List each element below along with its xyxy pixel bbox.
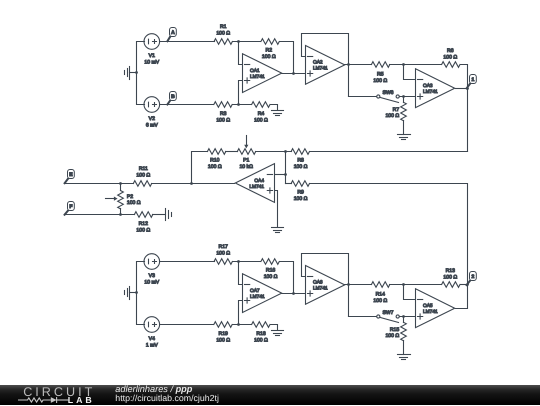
resistor R14 100 Ω	[371, 282, 389, 304]
wire OA4 non-inverting to ground	[275, 191, 278, 228]
resistor R17 100 Ω	[214, 244, 232, 264]
wire P1 to R8	[256, 151, 292, 153]
svg-text:V3: V3	[149, 273, 155, 279]
svg-text:LM741: LM741	[313, 66, 328, 72]
svg-text:R17: R17	[219, 244, 229, 250]
ground at R7	[398, 135, 411, 140]
voltage source V4 (1 mV)	[144, 317, 160, 349]
wire R14 to R13	[390, 284, 442, 286]
svg-text:100 Ω: 100 Ω	[373, 298, 387, 304]
svg-text:OA3: OA3	[423, 83, 433, 89]
resistor R7 100 Ω	[385, 97, 406, 135]
svg-text:A: A	[171, 30, 175, 36]
svg-text:1 mV: 1 mV	[146, 343, 158, 349]
svg-text:R14: R14	[376, 292, 386, 298]
wire F to R12	[66, 214, 135, 216]
resistor R13 100 Ω	[442, 268, 460, 287]
svg-text:V2: V2	[149, 116, 155, 122]
junction OA7 output / R16	[292, 292, 295, 295]
svg-text:100 Ω: 100 Ω	[216, 337, 230, 343]
svg-text:100 Ω: 100 Ω	[254, 117, 268, 123]
svg-text:100 Ω: 100 Ω	[216, 250, 230, 256]
ground near V1/V2	[125, 67, 137, 80]
svg-text:100 Ω: 100 Ω	[443, 54, 457, 60]
junction OA1 output / R2	[292, 72, 295, 75]
ground at R15	[398, 355, 411, 360]
op-amp OA4 LM741	[235, 164, 274, 203]
resistor R4 100 Ω	[252, 102, 270, 124]
svg-text:R6: R6	[447, 48, 454, 54]
ground at R12	[166, 209, 172, 221]
op-amp OA5 LM741	[416, 289, 455, 328]
node 2 flag	[467, 272, 477, 286]
wire R10 to P1	[226, 151, 238, 153]
ground at OA4	[272, 228, 284, 233]
junction R14/R13/OA5- node	[402, 283, 405, 286]
svg-text:100 Ω: 100 Ω	[216, 30, 230, 36]
wire R16 to OA7 output	[280, 262, 294, 294]
svg-text:P1: P1	[243, 158, 249, 164]
junction R19/R18/OA7+ node	[237, 323, 240, 326]
svg-text:OA6: OA6	[313, 280, 323, 286]
wire R1-R2 node	[233, 41, 261, 43]
ground at R18	[272, 331, 284, 336]
op-amp OA1 LM741	[243, 54, 282, 93]
svg-text:R13: R13	[446, 268, 456, 274]
junction V1-V2 ground tap	[135, 71, 138, 74]
wire R17 to R16	[233, 261, 261, 263]
voltage source V1 (10 mV)	[144, 34, 160, 66]
svg-text:100 Ω: 100 Ω	[262, 54, 276, 60]
svg-text:OA7: OA7	[250, 288, 260, 294]
wire R19 to R18	[233, 324, 252, 326]
wire OA2 feedback loop	[302, 34, 349, 97]
potentiometer P1 10 kΩ	[237, 136, 255, 171]
wire OA1 output to OA2+	[282, 73, 306, 75]
junction SW7/R15/OA5+ node	[402, 315, 405, 318]
svg-text:R18: R18	[256, 331, 266, 337]
wire to OA7 non-inverting input	[239, 301, 243, 325]
svg-text:100 Ω: 100 Ω	[208, 164, 222, 170]
wire R11 to OA4 output	[152, 183, 235, 185]
wire V1-V2 left common	[137, 42, 145, 105]
wire V3-V4 left common	[137, 262, 145, 325]
wire to OA3 inverting input	[404, 65, 416, 80]
junction OA4- node	[284, 173, 287, 176]
wire OA5 output	[456, 285, 468, 309]
svg-text:100 Ω: 100 Ω	[294, 164, 308, 170]
wire SW7 to OA5 non-inverting input	[400, 316, 416, 318]
wire R2 to OA1 output	[280, 42, 294, 74]
junction R17/R16/OA7- node	[237, 260, 240, 263]
junction R1/R2/OA1- node	[237, 40, 240, 43]
CircuitLab logo	[18, 384, 95, 404]
junction OA6 output	[347, 283, 350, 286]
node E flag	[65, 170, 75, 184]
wire R6 to OA3 output and down to R8 row	[461, 65, 468, 152]
svg-text:100 Ω: 100 Ω	[136, 172, 150, 178]
svg-text:V4: V4	[149, 336, 155, 342]
wire to OA5 inverting input	[404, 285, 416, 300]
svg-text:B: B	[171, 94, 175, 100]
svg-text:F: F	[69, 204, 72, 210]
svg-text:P2: P2	[127, 194, 133, 200]
svg-text:1: 1	[472, 77, 475, 83]
svg-text:100 Ω: 100 Ω	[294, 196, 308, 202]
wire R8 to node 1 riser	[310, 151, 468, 153]
svg-text:2: 2	[472, 274, 475, 280]
svg-text:100 Ω: 100 Ω	[216, 117, 230, 123]
svg-text:LM741: LM741	[423, 309, 438, 315]
wire riser P1/R8 to R9	[285, 152, 287, 184]
svg-text:SW7: SW7	[382, 310, 393, 316]
voltage source V3 (10 mV)	[144, 254, 160, 286]
wire R5 to R6	[390, 64, 442, 66]
svg-text:LM741: LM741	[423, 89, 438, 95]
svg-text:R4: R4	[258, 111, 265, 117]
wire V4 to R19	[160, 324, 214, 326]
wire R13 to node 2	[461, 284, 468, 286]
wire V2 to R3	[160, 104, 214, 106]
junction OA3 output node 1	[466, 87, 469, 90]
junction R11/feedback/OA4 output	[190, 182, 193, 185]
node B flag	[167, 92, 176, 105]
wire OA2 output to R5	[345, 64, 372, 66]
wire to OA1 non-inverting input	[239, 81, 243, 105]
junction F/P2/R12	[119, 213, 122, 216]
wire SW6 to OA3 non-inverting input	[400, 96, 416, 98]
wire V3 to R17	[160, 261, 215, 263]
switch SW6	[377, 90, 400, 103]
junction SW6/R7/OA3+ node	[402, 95, 405, 98]
svg-text:100 Ω: 100 Ω	[373, 78, 387, 84]
op-amp OA2 LM741	[306, 46, 345, 85]
wire R9 to node 2 drop	[310, 184, 468, 285]
svg-text:LAB: LAB	[68, 395, 95, 405]
svg-text:R5: R5	[377, 72, 384, 78]
svg-text:100 Ω: 100 Ω	[127, 200, 141, 206]
resistor R5 100 Ω	[371, 62, 389, 84]
wire OA2 output down to SW6	[349, 96, 377, 98]
svg-text:10 kΩ: 10 kΩ	[239, 164, 253, 170]
svg-text:10 mV: 10 mV	[144, 280, 159, 286]
svg-text:100 Ω: 100 Ω	[443, 274, 457, 280]
wire E to R11	[66, 183, 134, 185]
wire OA6 output down to SW7	[349, 316, 377, 318]
svg-text:100 Ω: 100 Ω	[385, 113, 399, 119]
wire OA6 output to R14	[345, 284, 372, 286]
resistor R19 100 Ω	[214, 322, 232, 344]
junction OA2 output	[347, 63, 350, 66]
junction node 2	[466, 283, 469, 286]
resistor R3 100 Ω	[214, 102, 232, 124]
resistor R12 100 Ω	[134, 212, 152, 234]
voltage source V2 (6 mV)	[144, 97, 160, 129]
wire to OA1 inverting input	[239, 42, 243, 65]
svg-text:R15: R15	[390, 327, 400, 333]
resistor R15 100 Ω	[385, 317, 406, 355]
ground at R4	[272, 111, 284, 116]
svg-text:R7: R7	[393, 107, 400, 113]
junction P1/R8/OA4- riser	[284, 150, 287, 153]
switch SW7	[377, 310, 400, 323]
op-amp OA3 LM741	[416, 69, 455, 108]
footer title text	[115, 383, 219, 402]
junction V3-V4 ground tap	[135, 291, 138, 294]
node A flag	[167, 28, 176, 42]
svg-text:R12: R12	[139, 221, 149, 227]
resistor R10 100 Ω	[207, 149, 225, 170]
svg-text:LM741: LM741	[250, 74, 265, 80]
wire junction to R9	[286, 183, 292, 185]
svg-text:R8: R8	[297, 158, 304, 164]
svg-text:LM741: LM741	[313, 286, 328, 292]
svg-text:LM741: LM741	[250, 294, 265, 300]
svg-text:R10: R10	[210, 158, 220, 164]
wire V1 to R1	[160, 41, 215, 43]
wire OA6 feedback loop	[302, 254, 349, 317]
svg-text:10 mV: 10 mV	[144, 60, 159, 66]
wire R3 to R4	[233, 104, 252, 106]
svg-text:R16: R16	[266, 268, 276, 274]
svg-text:R9: R9	[297, 190, 304, 196]
op-amp OA6 LM741	[306, 266, 345, 305]
resistor R8 100 Ω	[291, 149, 309, 170]
svg-text:100 Ω: 100 Ω	[136, 228, 150, 234]
svg-text:OA5: OA5	[423, 303, 433, 309]
svg-text:OA1: OA1	[250, 68, 260, 74]
ground near V3/V4	[125, 287, 137, 300]
svg-text:R11: R11	[139, 166, 148, 172]
svg-text:100 Ω: 100 Ω	[385, 333, 399, 339]
resistor R6 100 Ω	[442, 48, 460, 67]
svg-text:R2: R2	[266, 48, 273, 54]
junction E/P2/R11	[119, 182, 122, 185]
svg-text:100 Ω: 100 Ω	[254, 337, 268, 343]
svg-text:6 mV: 6 mV	[146, 123, 158, 129]
svg-text:OA4: OA4	[254, 178, 264, 184]
wire OA4 inverting input	[275, 174, 286, 176]
op-amp OA7 LM741	[243, 274, 282, 313]
footer bar	[0, 385, 540, 406]
wire OA3 output	[456, 88, 468, 90]
wire R4 to ground	[271, 105, 278, 111]
junction R3/R4/OA1+ node	[237, 103, 240, 106]
resistor R9 100 Ω	[291, 181, 309, 202]
svg-text:LM741: LM741	[249, 184, 264, 190]
wire to OA7 inverting input	[239, 262, 243, 285]
svg-text:OA2: OA2	[313, 60, 323, 66]
resistor R18 100 Ω	[252, 322, 270, 344]
wire feedback riser	[192, 152, 208, 184]
svg-text:R19: R19	[219, 331, 229, 337]
svg-text:R1: R1	[220, 24, 227, 30]
svg-text:SW6: SW6	[382, 90, 393, 96]
node F flag	[65, 202, 75, 215]
wire R12 to ground	[153, 214, 166, 216]
resistor R11 100 Ω	[133, 166, 151, 186]
node 1 flag	[467, 75, 477, 89]
wire R18 to ground	[271, 325, 278, 331]
resistor R2 100 Ω	[261, 39, 279, 60]
svg-text:R3: R3	[220, 111, 227, 117]
junction R5/R6/OA3- node	[402, 63, 405, 66]
resistor R16 100 Ω	[261, 259, 279, 280]
wire OA7 output to OA6+	[282, 293, 306, 295]
resistor R1 100 Ω	[214, 24, 232, 44]
svg-text:100 Ω: 100 Ω	[264, 274, 278, 280]
svg-text:V1: V1	[149, 53, 155, 59]
svg-text:http://circuitlab.com/cjuh2tj: http://circuitlab.com/cjuh2tj	[115, 392, 219, 402]
potentiometer P2 100 Ω	[106, 184, 141, 215]
